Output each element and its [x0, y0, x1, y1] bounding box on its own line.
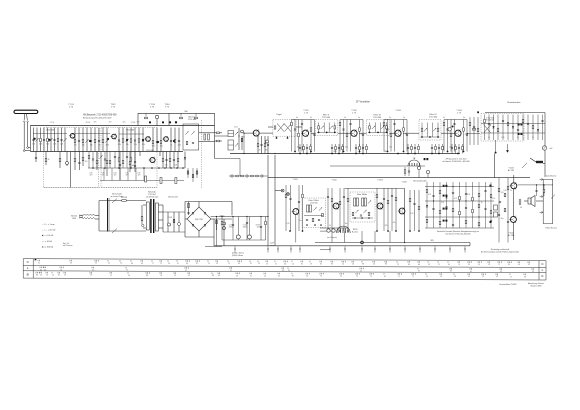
DIN pin: [347, 229, 349, 234]
capacitor: [142, 140, 144, 141]
wire: [260, 217, 262, 241]
wire: [139, 152, 141, 157]
DIN pin: [345, 229, 347, 234]
resistor: [439, 190, 441, 193]
wire: [439, 182, 441, 228]
wire: [244, 132, 253, 134]
value label: [297, 147, 300, 149]
wire: [103, 168, 105, 181]
resistor: [437, 128, 439, 131]
wire: [339, 120, 341, 152]
diode: [492, 126, 494, 128]
wire: [167, 212, 169, 232]
svg-text:Bei Stereoumbau wird der Pil: Bei Stereoumbau wird der Pilotton abgesc…: [481, 250, 519, 253]
svg-text:365: 365: [430, 240, 433, 242]
decoder top wire: [345, 188, 405, 190]
value label: [256, 224, 261, 228]
svg-text:■□ = 100 kΩ: ■□ = 100 kΩ: [42, 245, 54, 248]
junction: [221, 216, 222, 217]
svg-text:47n: 47n: [393, 222, 396, 224]
capacitor: [298, 201, 300, 202]
psu output wire: [213, 219, 215, 246]
wire: [231, 202, 233, 216]
wire: [299, 144, 301, 154]
svg-text:1710 460: 1710 460: [373, 117, 381, 119]
resistor: [310, 128, 312, 131]
capacitor: [383, 198, 385, 199]
svg-text:Telefon Buchse: Telefon Buchse: [545, 228, 557, 230]
riser to rail: [434, 246, 436, 252]
IF transformer 1: [228, 131, 234, 137]
resistor: [118, 158, 120, 161]
transistor: [395, 130, 401, 136]
wire: [156, 119, 158, 126]
value label: [152, 146, 155, 148]
wire: [532, 115, 534, 141]
transistor: [112, 134, 117, 139]
stage top wire: [292, 119, 315, 121]
resistor: [74, 158, 76, 161]
resistor: [478, 193, 480, 196]
svg-text:2000µ: 2000µ: [229, 226, 234, 228]
dashed 19kHz filter box: [302, 198, 326, 228]
MP block: [536, 161, 543, 163]
wire: [196, 168, 198, 178]
resistor: [265, 221, 267, 224]
band row 0 ticks: [38, 260, 530, 263]
svg-text:1710 461: 1710 461: [146, 150, 154, 152]
box ground blobs: [306, 224, 322, 226]
resistor: [507, 122, 509, 125]
wire: [507, 144, 509, 150]
electrolytic: [66, 162, 69, 165]
resistor: [376, 194, 378, 197]
wire: [160, 128, 162, 152]
resistor: [459, 196, 461, 199]
wire: [334, 122, 336, 132]
wire: [78, 128, 80, 152]
wire: [259, 132, 273, 134]
wire: [134, 152, 136, 173]
ground blobs: [343, 151, 361, 153]
riser to rail: [290, 246, 292, 252]
wire: [536, 200, 543, 202]
capacitor: [488, 123, 490, 124]
wire: [232, 217, 234, 241]
capacitor: [349, 123, 351, 124]
wire: [134, 128, 136, 152]
svg-text:87: 87: [292, 275, 294, 277]
svg-text:47n: 47n: [114, 175, 117, 177]
capacitor: [343, 196, 345, 197]
resistor: [216, 220, 218, 223]
capacitor: [156, 141, 158, 142]
wire: [450, 120, 452, 152]
svg-text:AM Baustein 1710 456/57/58-4: AM Baustein 1710 456/57/58-459: [83, 114, 117, 117]
wire: [158, 211, 163, 213]
svg-text:←○← = 05 mm: ←○← = 05 mm: [42, 229, 56, 232]
value label: [465, 134, 468, 136]
wire: [369, 122, 371, 132]
svg-text:ab 303 500 100: ab 303 500 100: [146, 197, 158, 199]
svg-text:1710 460: 1710 460: [429, 116, 437, 118]
rail bottom link: [543, 223, 553, 225]
electrolytic: [223, 227, 226, 230]
capacitor: [32, 139, 34, 140]
resistor: [543, 189, 545, 192]
bus y231: [320, 230, 336, 232]
resistor: [403, 128, 405, 131]
bus y228: [320, 227, 348, 229]
dashed section divider: [201, 120, 203, 188]
wire: [327, 188, 329, 231]
IF transformer 2: [228, 140, 234, 150]
wire: [169, 152, 171, 169]
wire: [418, 144, 420, 154]
resistor: [216, 140, 219, 142]
resistor: [335, 146, 337, 149]
svg-text:5k: 5k: [488, 137, 490, 139]
svg-text:73: 73: [397, 264, 399, 266]
wire: [452, 182, 454, 228]
vertical wire: [106, 152, 108, 177]
resistor: [192, 174, 194, 177]
junction: [246, 216, 247, 217]
wire: [35, 152, 37, 163]
antenna lead wire: [23, 123, 25, 150]
svg-text:AC 181: AC 181: [508, 169, 514, 172]
antenna terminal: [27, 147, 29, 149]
stage top wire: [444, 119, 467, 121]
svg-text:47n: 47n: [165, 165, 168, 167]
capacitor: [178, 140, 180, 141]
resistor: [472, 129, 475, 131]
value label: [481, 202, 483, 204]
value label: [85, 161, 88, 163]
resistor: [138, 139, 140, 142]
wire: [180, 113, 182, 116]
wire: [502, 115, 504, 141]
wire: [433, 182, 435, 228]
transistor: [351, 130, 357, 136]
resistor: [291, 122, 293, 125]
svg-text:C 163: C 163: [131, 122, 136, 124]
svg-text:24: 24: [356, 276, 358, 278]
svg-text:4,7k: 4,7k: [410, 213, 413, 215]
capacitor: [414, 147, 416, 148]
wire: [94, 128, 96, 152]
wire: [463, 120, 465, 152]
capacitor: [173, 159, 175, 160]
svg-text:71: 71: [510, 276, 512, 278]
dashed Pegel box: [273, 119, 296, 136]
wire: [173, 152, 175, 169]
tall cap 1: [145, 176, 147, 182]
filter ground blobs: [318, 132, 336, 134]
T301 emitter wire: [295, 215, 297, 243]
svg-text:53: 53: [258, 263, 260, 265]
trimmer arrow: [85, 139, 88, 142]
svg-text:5n: 5n: [389, 117, 391, 119]
wire: [488, 115, 490, 141]
svg-text:99: 99: [95, 263, 97, 265]
value label: [137, 173, 140, 177]
capacitor: [484, 190, 486, 191]
svg-text:R 155: R 155: [86, 122, 91, 124]
svg-text:am Chassis: am Chassis: [63, 245, 72, 247]
wire: [96, 152, 98, 171]
resistor: [472, 209, 474, 212]
capacitor: [438, 147, 440, 148]
wire: [285, 185, 287, 231]
DIN pin: [340, 229, 342, 234]
resistor: [186, 141, 188, 144]
capacitor: [507, 221, 509, 222]
wire: [287, 136, 289, 138]
svg-text:18: 18: [428, 264, 430, 266]
wire: [215, 140, 223, 142]
lower ladder wire: [126, 152, 128, 169]
resistor: [439, 221, 441, 224]
capacitor: [484, 208, 486, 209]
junction: [452, 186, 453, 187]
filter electrolytic can: [247, 235, 251, 239]
value label: [492, 198, 495, 200]
capacitor: [294, 129, 296, 130]
diode pair 3: [443, 208, 445, 210]
test point: [266, 140, 269, 143]
wire: [214, 218, 232, 220]
wire: [432, 123, 434, 138]
trimmer arrow: [372, 126, 375, 129]
value label: [132, 165, 135, 167]
wire: [387, 120, 389, 152]
capacitor: [432, 195, 434, 196]
IF link wire: [199, 132, 215, 134]
resistor: [346, 133, 348, 136]
svg-text:5n: 5n: [443, 117, 445, 119]
resistor: [497, 128, 499, 131]
svg-text:23: 23: [468, 276, 470, 278]
resistor: [450, 133, 452, 136]
value label: [48, 159, 50, 161]
wire: [102, 128, 104, 152]
value label: [175, 122, 178, 124]
top link wire: [138, 112, 215, 114]
wire: [318, 122, 320, 132]
black square node: [477, 111, 479, 113]
trimmer arrow: [433, 128, 436, 131]
ground blobs: [294, 151, 312, 153]
wire: [427, 174, 429, 178]
wire: [342, 144, 344, 154]
lower ladder wire: [134, 152, 136, 169]
trimmer arrow: [125, 139, 128, 142]
transistor: [333, 203, 339, 209]
svg-text:4,7k: 4,7k: [286, 223, 289, 225]
capacitor: [473, 126, 475, 127]
svg-text:42: 42: [264, 275, 266, 277]
matrix right blobs: [490, 185, 492, 223]
wire to bus: [374, 231, 376, 243]
svg-text:25: 25: [216, 263, 218, 265]
resistor: [519, 200, 521, 205]
wire: [158, 219, 163, 221]
svg-text:21: 21: [438, 264, 440, 266]
trimmer arrow: [321, 126, 324, 129]
resistor: [390, 133, 392, 136]
junction: [267, 216, 268, 217]
svg-text:T 302: T 302: [331, 180, 337, 182]
svg-text:92: 92: [528, 264, 530, 266]
long vertical bus B: [274, 155, 276, 246]
svg-text:95: 95: [301, 263, 303, 265]
electrolytic: [246, 175, 248, 177]
resistor: [411, 146, 413, 149]
wire: [237, 217, 239, 241]
wire: [473, 117, 475, 145]
svg-text:365: 365: [333, 151, 336, 153]
diode: [192, 224, 194, 226]
svg-text:1710 464: 1710 464: [188, 119, 197, 121]
value label: [137, 122, 140, 124]
transistor: [150, 157, 155, 162]
svg-text:56: 56: [520, 207, 522, 209]
wire: [359, 144, 361, 154]
svg-text:ZF Baustein 1 152 012: ZF Baustein 1 152 012: [445, 158, 467, 161]
lower ladder wire: [118, 152, 120, 169]
resistor: [368, 212, 370, 215]
wire: [414, 190, 416, 231]
capacitor: [118, 140, 120, 141]
svg-text:31: 31: [126, 270, 128, 272]
svg-text:C 151: C 151: [50, 122, 55, 124]
svg-text:1710 903: 1710 903: [310, 203, 318, 205]
trimmer arrow: [235, 143, 238, 146]
resistor: [339, 122, 341, 125]
wire: [163, 231, 185, 233]
electrolytic: [261, 175, 263, 177]
band row 2 ticks: [36, 272, 526, 275]
capacitor: [431, 147, 433, 148]
resistor: [96, 160, 98, 163]
svg-text:69: 69: [384, 276, 386, 278]
svg-text:Taste Buchse: Taste Buchse: [546, 174, 557, 177]
svg-text:2,2k: 2,2k: [142, 144, 145, 146]
svg-text:←□← = 1 mm: ←□← = 1 mm: [42, 223, 55, 226]
svg-text:19: 19: [208, 263, 210, 265]
value label: [113, 173, 116, 177]
wire: [527, 115, 529, 141]
wire: [90, 128, 92, 152]
capacitor: [413, 203, 415, 204]
decoder matrix wire: [425, 227, 494, 229]
ratio top wire: [485, 112, 545, 114]
19kHz transformer: [307, 205, 309, 212]
capacitor: [331, 147, 333, 148]
svg-text:53: 53: [168, 263, 170, 265]
DIN pin: [416, 163, 418, 166]
wire: [311, 132, 316, 134]
antenna: [14, 110, 38, 113]
svg-text:4,7k: 4,7k: [454, 198, 457, 200]
switch contact: [112, 199, 117, 204]
wire: [221, 217, 223, 241]
wire: [142, 128, 144, 152]
resistor: [256, 175, 258, 177]
wire: [462, 144, 464, 154]
resistor: [216, 132, 219, 134]
value label: [106, 145, 109, 147]
wire: [122, 128, 124, 152]
svg-text:22n: 22n: [299, 220, 302, 222]
mains dropper: [83, 214, 95, 216]
wire: [386, 122, 388, 132]
svg-text:86: 86: [385, 264, 387, 266]
trimmer arrow: [99, 155, 102, 158]
svg-text:2,2k: 2,2k: [60, 144, 63, 146]
resistor: [426, 219, 428, 222]
svg-text:T 301: T 301: [292, 179, 298, 181]
junction: [267, 153, 268, 154]
svg-text:73: 73: [60, 269, 62, 271]
value label: [488, 137, 490, 139]
svg-text:54: 54: [373, 264, 375, 266]
capacitor: [232, 224, 234, 225]
svg-text:470: 470: [428, 194, 431, 196]
svg-text:73: 73: [160, 263, 162, 265]
capacitor: [502, 120, 504, 121]
wire: [427, 123, 429, 138]
svg-text:50: 50: [342, 264, 344, 266]
svg-text:33: 33: [70, 263, 72, 265]
svg-text:bei Stereo 70 000 001-400 000: bei Stereo 70 000 001-400 000: [446, 232, 471, 235]
riser to rail: [449, 246, 451, 252]
wire: [156, 128, 158, 152]
svg-text:Stereodecoder: Stereodecoder: [413, 180, 427, 183]
capacitor: [53, 139, 55, 140]
svg-text:61: 61: [230, 270, 232, 272]
trimmer arrow: [424, 128, 427, 131]
svg-text:71: 71: [412, 276, 414, 278]
svg-text:43: 43: [496, 276, 498, 278]
svg-text:Rückseitig nachbestellt: Rückseitig nachbestellt: [491, 248, 510, 251]
svg-text:5n: 5n: [296, 117, 298, 119]
lower wire y180: [100, 180, 184, 182]
trimmer arrow: [330, 126, 333, 129]
AM link wire: [33, 133, 67, 135]
resistor: [395, 197, 397, 200]
wire: [223, 219, 225, 246]
wire: [195, 113, 197, 116]
svg-text:49: 49: [426, 276, 428, 278]
psu output bus: [211, 216, 268, 218]
svg-text:1k: 1k: [170, 145, 172, 147]
diode pair 1: [443, 185, 445, 187]
junction: [433, 200, 434, 201]
resistor: [490, 194, 492, 197]
wire: [458, 144, 460, 154]
value label: [345, 223, 348, 225]
wire: [74, 128, 76, 152]
DIN pin: [409, 163, 411, 166]
value label: [532, 137, 534, 139]
svg-text:Gleichrichter: Gleichrichter: [168, 196, 178, 199]
wire: [359, 120, 361, 152]
svg-text:47n: 47n: [361, 134, 364, 136]
value label: [389, 147, 392, 149]
wire: [490, 182, 492, 228]
